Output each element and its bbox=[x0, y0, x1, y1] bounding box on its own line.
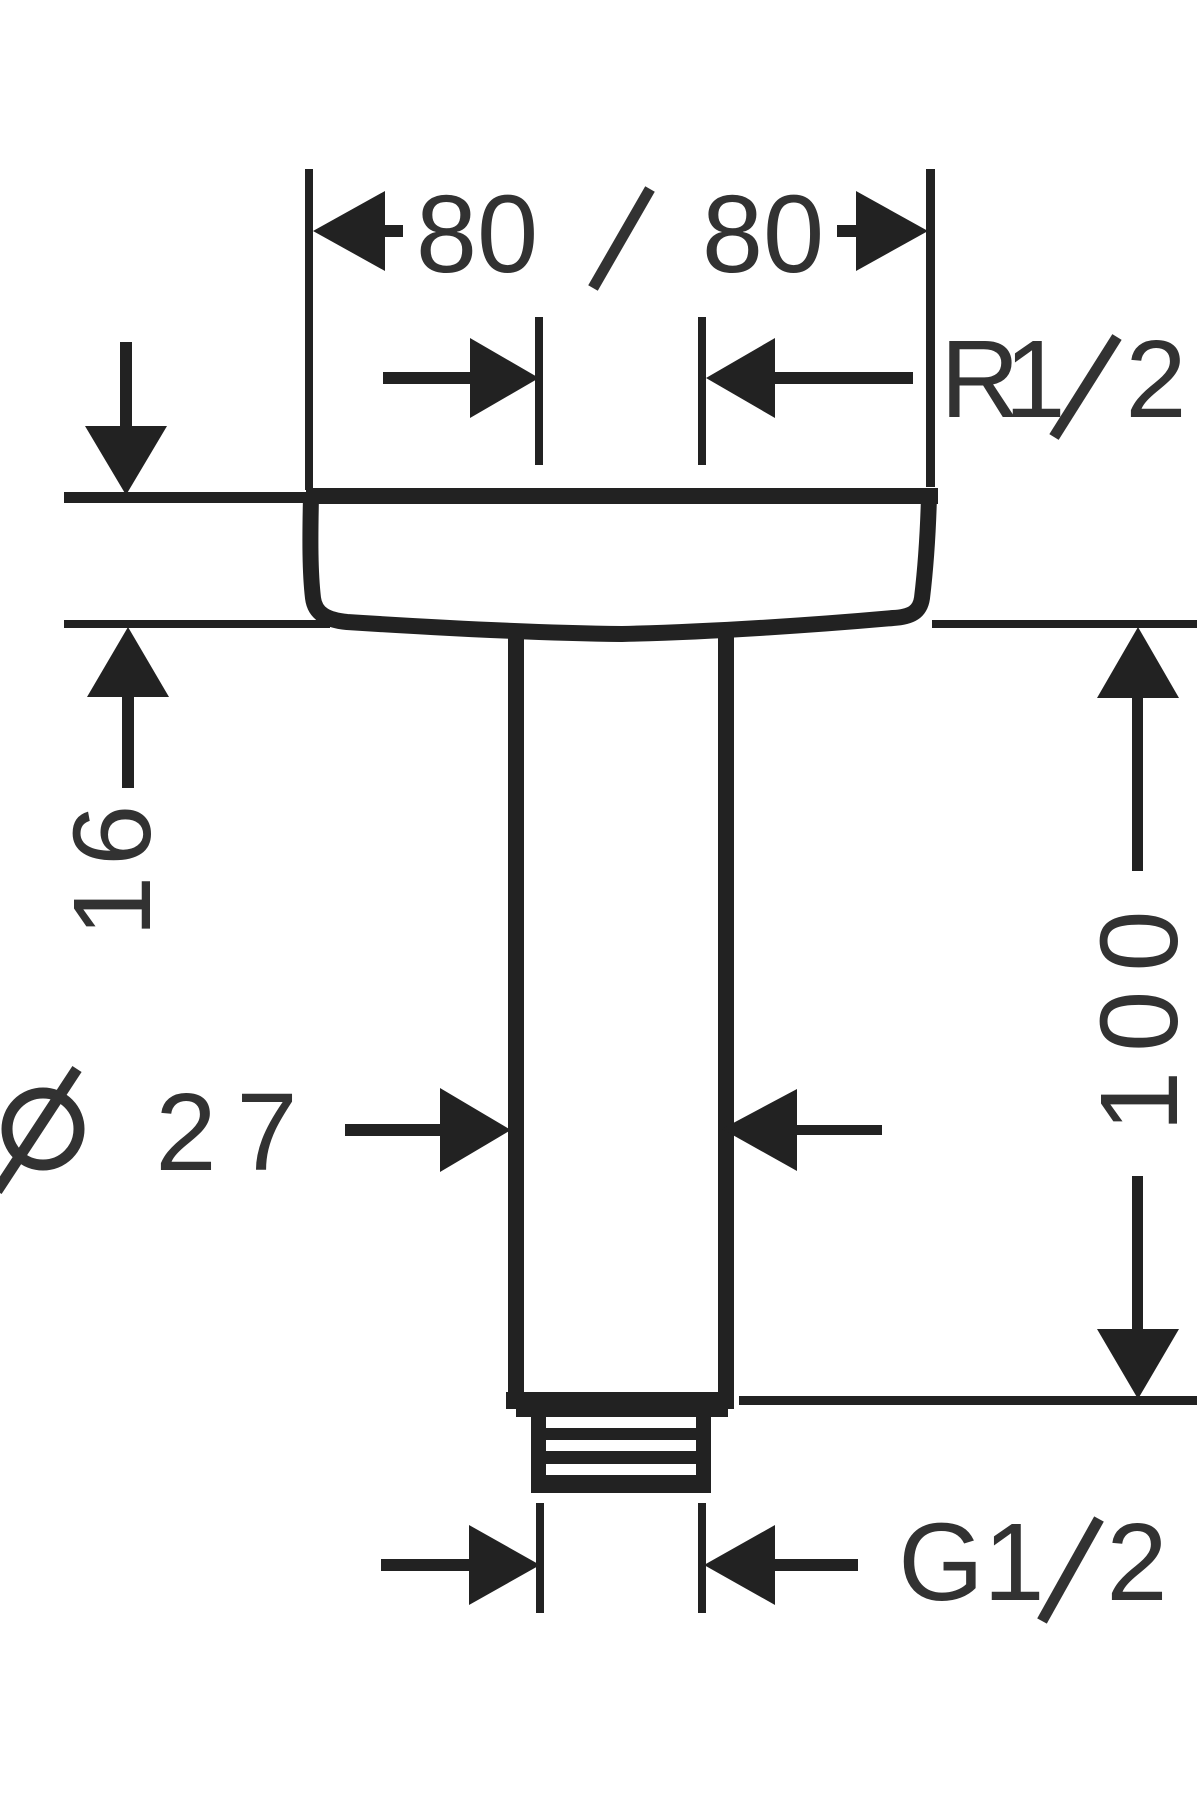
extension line right (80/80 dim) bbox=[926, 169, 935, 487]
svg-text:80: 80 bbox=[416, 173, 538, 296]
16 dim up arrow stem bbox=[122, 694, 134, 788]
d27 dim right arrowhead bbox=[722, 1089, 797, 1171]
G1/2 dim right tick bbox=[698, 1503, 706, 1613]
svg-text:2: 2 bbox=[1106, 1501, 1167, 1624]
G1/2 dim right line bbox=[775, 1559, 858, 1571]
svg-text:7: 7 bbox=[236, 1071, 297, 1194]
thread block bbox=[531, 1409, 711, 1493]
100 dim upper stem bbox=[1132, 696, 1143, 871]
d27 dim right line bbox=[797, 1125, 882, 1135]
thread stripe 3 bbox=[546, 1464, 696, 1475]
16 dim up arrowhead bbox=[87, 627, 169, 697]
label G1/2 bbox=[898, 1501, 1167, 1624]
svg-text:1: 1 bbox=[983, 1501, 1044, 1624]
G1/2 dim left tick bbox=[536, 1503, 544, 1613]
pipe right edge bbox=[718, 632, 734, 1395]
dimension line 80/80 right arrowhead bbox=[856, 191, 928, 271]
dimension line 80/80 left stub bbox=[385, 225, 403, 237]
svg-text:2: 2 bbox=[1125, 318, 1186, 441]
16 dim down arrow stem bbox=[120, 342, 132, 432]
R1/2 dim left tick bbox=[535, 317, 543, 465]
R1/2 dim right arrowhead bbox=[706, 338, 775, 418]
flange outline (left edge, dished bottom, right edge) bbox=[310, 496, 929, 634]
100 dim up arrowhead bbox=[1097, 627, 1179, 698]
100 dim down arrowhead bbox=[1097, 1329, 1179, 1399]
pipe end cap bbox=[506, 1392, 734, 1409]
R1/2 dim left arrowhead bbox=[470, 338, 539, 418]
ceiling line top left bbox=[64, 492, 310, 503]
thread stripe 1 bbox=[546, 1417, 696, 1428]
dimension line 80/80 right stub bbox=[837, 225, 856, 237]
diameter symbol slash bbox=[0, 1069, 77, 1191]
ceiling line bottom left bbox=[64, 620, 330, 628]
R1/2 dim right line bbox=[775, 372, 913, 384]
pipe end step bbox=[516, 1409, 728, 1417]
label R1/2 bbox=[940, 318, 1186, 441]
100 dim lower stem bbox=[1132, 1176, 1143, 1331]
pipe end reference line bbox=[739, 1396, 1197, 1405]
d27 dim left line bbox=[345, 1124, 440, 1136]
d27 dim left arrowhead bbox=[440, 1088, 511, 1172]
dimension line 80/80 left arrowhead bbox=[313, 191, 385, 271]
diameter symbol circle bbox=[7, 1093, 79, 1165]
slash of 80/80 bbox=[593, 189, 650, 288]
G1/2 dim left line bbox=[381, 1559, 469, 1571]
svg-text:G: G bbox=[898, 1501, 984, 1624]
R1/2 dim left line bbox=[383, 372, 472, 384]
thread stripe 2 bbox=[546, 1440, 696, 1451]
G1/2 dim right arrowhead bbox=[704, 1525, 775, 1605]
R1/2 dim right tick bbox=[698, 317, 706, 465]
G1/2 dim left arrowhead bbox=[469, 1525, 540, 1605]
svg-text:1: 1 bbox=[1004, 318, 1065, 441]
16 dim down arrowhead bbox=[85, 426, 167, 495]
ceiling line bottom right bbox=[932, 620, 1197, 628]
svg-text:80: 80 bbox=[702, 173, 824, 296]
flange top edge bbox=[306, 488, 938, 504]
svg-text:16: 16 bbox=[51, 795, 174, 937]
svg-text:100: 100 bbox=[1078, 891, 1200, 1132]
extension line left (80/80 dim) bbox=[305, 169, 313, 490]
pipe left edge bbox=[508, 628, 524, 1395]
svg-text:2: 2 bbox=[155, 1071, 216, 1194]
label 27 bbox=[155, 1071, 297, 1194]
